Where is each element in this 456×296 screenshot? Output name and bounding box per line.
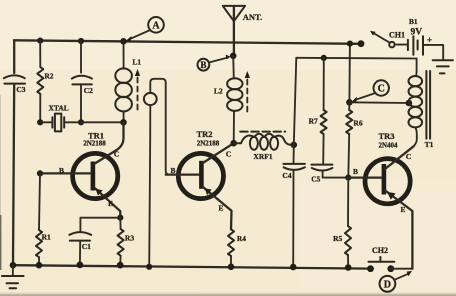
capacitor C1 bbox=[69, 232, 91, 265]
svg-text:C5: C5 bbox=[311, 174, 320, 183]
node D bbox=[380, 271, 413, 292]
battery B1 bbox=[395, 36, 444, 60]
svg-text:L2: L2 bbox=[214, 87, 223, 96]
node: T1 tap junction bbox=[406, 100, 413, 107]
antenna bbox=[223, 6, 245, 56]
node: C2 top junction bbox=[78, 38, 84, 44]
left edge scan sliver bbox=[0, 215, 1, 270]
svg-text:9V: 9V bbox=[410, 27, 422, 37]
svg-text:C: C bbox=[406, 152, 411, 161]
transistor TR1 bbox=[40, 122, 124, 217]
node A bbox=[126, 17, 164, 42]
svg-text:E: E bbox=[401, 205, 406, 214]
node: R7 top junction bbox=[321, 55, 327, 61]
svg-text:ANT.: ANT. bbox=[243, 12, 262, 22]
top rail bbox=[14, 40, 361, 44]
node: L1 bottom junction bbox=[120, 119, 127, 126]
L1 tuning dashed arrow bbox=[135, 69, 140, 111]
node A junction on rail bbox=[120, 38, 127, 45]
svg-text:A: A bbox=[152, 20, 160, 31]
svg-text:2N404: 2N404 bbox=[378, 141, 398, 149]
svg-text:B: B bbox=[59, 166, 64, 175]
svg-text:C3: C3 bbox=[16, 85, 25, 94]
wire base node down to R1 bbox=[39, 173, 40, 230]
svg-text:XTAL: XTAL bbox=[48, 103, 68, 112]
svg-text:R5: R5 bbox=[333, 234, 342, 243]
svg-text:B1: B1 bbox=[409, 17, 418, 26]
node C bbox=[352, 80, 389, 102]
svg-text:R6: R6 bbox=[353, 118, 362, 127]
transistor TR3 bbox=[348, 146, 413, 268]
svg-text:B: B bbox=[200, 60, 206, 70]
svg-text:L1: L1 bbox=[132, 58, 141, 67]
resistor R6 bbox=[348, 102, 350, 110]
svg-text:XRF1: XRF1 bbox=[253, 152, 272, 161]
wire R2 to XTAL node bbox=[39, 94, 41, 122]
inductor L1 bbox=[115, 41, 132, 122]
resistor R4 bbox=[228, 229, 234, 256]
svg-text:R4: R4 bbox=[237, 234, 246, 243]
svg-text:CH2: CH2 bbox=[372, 246, 388, 255]
node: TR1 base junction bbox=[37, 170, 43, 176]
svg-text:T1: T1 bbox=[425, 140, 434, 149]
svg-text:C: C bbox=[226, 150, 231, 159]
node: TR1 emitter junction bbox=[117, 215, 123, 221]
svg-text:B: B bbox=[353, 167, 358, 176]
resistor R7 bbox=[323, 58, 325, 110]
wire feed to XRF1 node bbox=[294, 58, 297, 145]
inductor L2 bbox=[227, 56, 242, 143]
left rail vertical (C3 branch upper) bbox=[13, 40, 15, 73]
node: TR3 base junction bbox=[345, 175, 351, 181]
svg-text:TR2: TR2 bbox=[196, 129, 212, 139]
svg-text:CH1: CH1 bbox=[389, 31, 405, 40]
node B junction bbox=[230, 53, 237, 60]
node: TR2 collector junction bbox=[230, 140, 237, 147]
bottom rail junction dots bbox=[10, 262, 17, 269]
resistor R2 bbox=[37, 67, 43, 94]
svg-text:TR3: TR3 bbox=[378, 131, 394, 141]
svg-text:2N2188: 2N2188 bbox=[197, 139, 220, 147]
svg-text:E: E bbox=[219, 203, 224, 212]
svg-text:D: D bbox=[384, 279, 391, 290]
resistor R5 bbox=[347, 178, 349, 226]
resistor R3 bbox=[119, 218, 121, 229]
svg-text:R3: R3 bbox=[125, 234, 134, 243]
svg-text:C: C bbox=[114, 150, 119, 159]
wire emitter node to C1 bbox=[80, 218, 120, 231]
RF choke XRF1 bbox=[234, 132, 294, 150]
svg-text:R7: R7 bbox=[309, 117, 318, 126]
node B bbox=[198, 55, 231, 71]
transistor TR2 bbox=[166, 143, 234, 229]
node C junction bbox=[346, 99, 353, 106]
svg-text:C1: C1 bbox=[82, 242, 91, 251]
svg-text:C4: C4 bbox=[282, 171, 291, 180]
svg-text:R2: R2 bbox=[44, 72, 53, 81]
capacitor C5 bbox=[311, 134, 348, 178]
ground (top right) bbox=[433, 60, 453, 73]
capacitor C2 bbox=[72, 41, 92, 122]
transformer T1 bbox=[409, 59, 431, 147]
svg-text:+: + bbox=[427, 36, 432, 46]
wire R2 branch bbox=[39, 41, 41, 67]
wire node C to T1 tap bbox=[349, 101, 409, 104]
L2 tuning dashed arrow bbox=[245, 71, 250, 115]
crystal XTAL bbox=[37, 114, 84, 132]
node: R2 top junction bbox=[37, 38, 43, 44]
capacitor C4 bbox=[283, 145, 305, 267]
svg-text:E: E bbox=[108, 199, 113, 208]
svg-text:C2: C2 bbox=[84, 86, 93, 95]
+V feed line bbox=[296, 57, 416, 60]
wire CH2 to emitter drop bbox=[391, 268, 413, 270]
switch CH2 bbox=[367, 257, 394, 272]
ground (bottom left) bbox=[2, 265, 24, 288]
wire XTAL node to L1 bottom node bbox=[81, 121, 124, 123]
switch CH1 bbox=[370, 31, 395, 48]
link winding of L1 bbox=[144, 79, 178, 267]
rail end dots bbox=[347, 41, 353, 47]
bottom rail bbox=[13, 265, 371, 268]
resistor R1 bbox=[36, 230, 42, 257]
node: XRF1 right junction bbox=[291, 142, 298, 149]
svg-text:B: B bbox=[171, 166, 176, 175]
svg-text:R1: R1 bbox=[42, 232, 51, 241]
svg-text:C: C bbox=[378, 84, 385, 95]
bottom scan shadow bbox=[0, 293, 456, 296]
capacitor C3 bbox=[4, 75, 25, 265]
svg-text:2N2188: 2N2188 bbox=[83, 140, 106, 148]
wire: rail dot down through C node bbox=[348, 44, 351, 103]
